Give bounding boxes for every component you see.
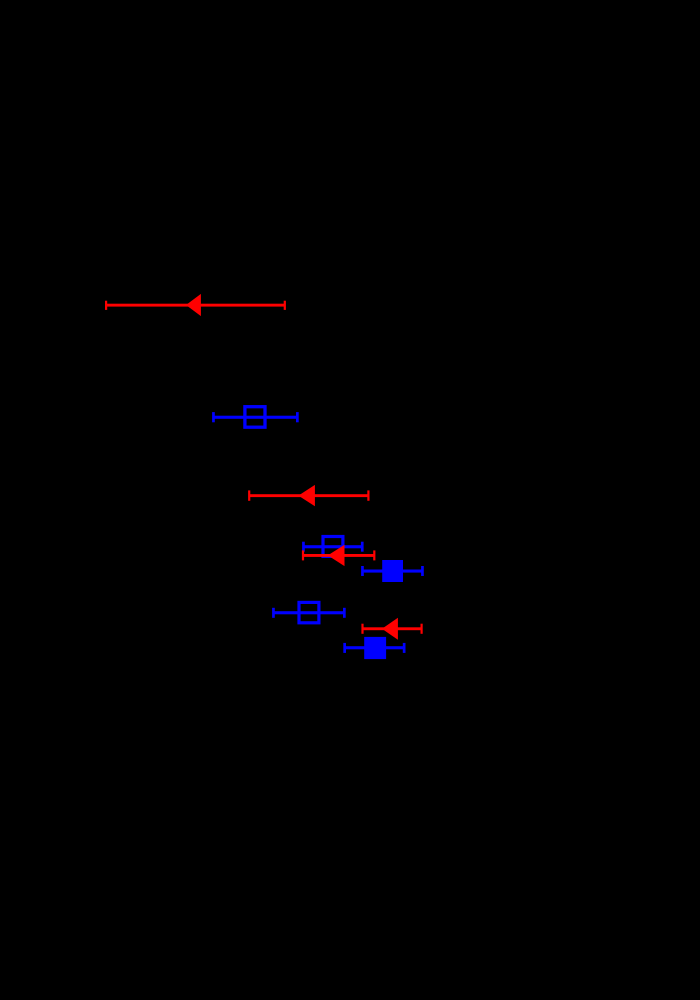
series E2 marker: open square (blue) <box>245 407 265 428</box>
series E2 error bar with caps (blue) <box>212 412 299 422</box>
series E5 marker: filled left-pointing triangle (red) <box>328 545 345 566</box>
series E6 marker: filled square (blue) <box>382 560 403 582</box>
series E9 error bar with caps (blue) <box>343 643 405 653</box>
series E7 error bar with caps (blue) <box>272 608 346 618</box>
series E4 marker: open square (blue) <box>323 537 343 557</box>
series E5 error bar with caps (red, drawn over E4) <box>302 550 376 560</box>
series E8 marker: filled left-pointing triangle (red) <box>382 618 398 640</box>
series E9 marker: filled square (blue) <box>364 637 386 659</box>
series E8 error bar with caps (red) <box>361 624 422 634</box>
series E6 error bar with caps (blue) <box>361 566 424 576</box>
series E1 marker: filled left-pointing triangle (red) <box>186 294 201 316</box>
series E3 error bar with caps (red) <box>248 490 369 500</box>
series E7 marker: open square (blue) <box>299 602 319 622</box>
series E4 error bar with caps (blue) <box>302 542 364 552</box>
series E3 marker: filled left-pointing triangle (red) <box>298 485 315 506</box>
series E1 error bar with caps (red) <box>105 301 286 310</box>
